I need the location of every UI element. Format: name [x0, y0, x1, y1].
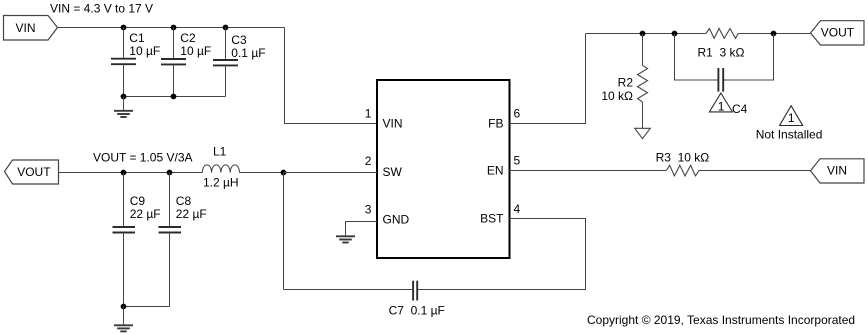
ground output caps — [114, 307, 133, 332]
junction C3 top — [223, 25, 229, 31]
junction C2 top — [171, 25, 177, 31]
capacitor C3 0.1uF — [213, 28, 266, 97]
junction C9 top — [121, 170, 127, 176]
wire feedback top rail left — [586, 33, 706, 35]
svg-text:Copyright © 2019, Texas Instru: Copyright © 2019, Texas Instruments Inco… — [587, 313, 855, 327]
svg-text:VIN: VIN — [827, 164, 847, 178]
capacitor C1 10uF — [111, 28, 160, 97]
variant marker triangle 1 at C4 — [709, 93, 732, 113]
svg-text:1: 1 — [365, 107, 372, 121]
wire L1 to SW junction — [240, 172, 378, 174]
svg-text:R1 3 kΩ: R1 3 kΩ — [698, 46, 745, 60]
svg-text:EN: EN — [487, 164, 504, 178]
wire BST pin to C7 — [417, 219, 585, 290]
wire GND pin to ground — [346, 222, 378, 237]
wire C4 right to R1 right — [723, 34, 773, 81]
junction R2 top — [640, 31, 646, 37]
svg-text:5: 5 — [514, 153, 521, 167]
wire feedback top rail right — [738, 33, 810, 35]
svg-text:C4: C4 — [732, 102, 748, 116]
svg-text:R3 10 kΩ: R3 10 kΩ — [656, 151, 710, 165]
wire input cap ground rail — [124, 96, 226, 98]
inductor L1 1.2uH — [202, 145, 239, 190]
svg-text:2: 2 — [365, 154, 372, 168]
ground IC GND pin — [336, 236, 355, 242]
svg-text:VIN: VIN — [16, 21, 36, 35]
svg-text:22 µF: 22 µF — [130, 207, 161, 221]
junction C8 top — [167, 170, 173, 176]
junction R1 left — [672, 31, 678, 37]
wire VIN rail to pin 1 — [285, 28, 378, 124]
ground arrow R2 — [635, 128, 651, 138]
svg-text:3: 3 — [365, 203, 372, 217]
svg-text:C3: C3 — [231, 33, 247, 47]
svg-text:1: 1 — [788, 111, 795, 125]
capacitor C4 (not installed) — [718, 68, 747, 116]
port VIN input flag — [4, 16, 58, 41]
svg-text:10 µF: 10 µF — [129, 44, 160, 58]
variant legend triangle 1 Not Installed — [756, 106, 823, 142]
svg-text:1: 1 — [718, 100, 725, 114]
junction C1 bottom — [121, 94, 127, 100]
resistor R3 10k — [656, 151, 710, 176]
svg-text:VOUT: VOUT — [821, 26, 855, 40]
svg-text:6: 6 — [514, 107, 521, 121]
svg-text:C2: C2 — [180, 31, 196, 45]
wire FB pin to feedback rail — [510, 34, 586, 124]
junction SW node — [281, 170, 287, 176]
port VOUT flag (top right) — [811, 21, 865, 45]
ground input caps — [114, 97, 133, 118]
svg-text:VIN = 4.3 V to 17 V: VIN = 4.3 V to 17 V — [50, 2, 153, 16]
svg-text:VIN: VIN — [383, 117, 403, 131]
capacitor C8 22uF — [159, 173, 207, 307]
svg-text:22 µF: 22 µF — [176, 207, 207, 221]
resistor R1 3k — [698, 29, 745, 60]
wire output cap ground rail — [124, 306, 170, 308]
svg-text:1.2 µH: 1.2 µH — [203, 176, 239, 190]
wire R3 to VIN flag — [699, 170, 810, 172]
junction C1 top — [121, 25, 127, 31]
svg-text:10 kΩ: 10 kΩ — [601, 89, 633, 103]
svg-text:4: 4 — [514, 202, 521, 216]
svg-text:FB: FB — [488, 117, 503, 131]
svg-text:R2: R2 — [618, 76, 634, 90]
capacitor C2 10uF — [161, 28, 211, 97]
svg-text:L1: L1 — [213, 145, 227, 159]
wire EN pin to R3 — [510, 170, 667, 172]
junction C9 bottom — [121, 304, 127, 310]
svg-text:C9: C9 — [130, 194, 146, 208]
resistor R2 10k — [601, 34, 647, 129]
svg-text:Not Installed: Not Installed — [756, 128, 823, 142]
svg-text:SW: SW — [383, 165, 403, 179]
svg-text:VOUT: VOUT — [17, 165, 51, 179]
svg-text:C1: C1 — [129, 31, 145, 45]
svg-text:BST: BST — [480, 212, 504, 226]
svg-text:VOUT = 1.05 V/3A: VOUT = 1.05 V/3A — [93, 151, 193, 165]
svg-text:C8: C8 — [176, 194, 192, 208]
capacitor C9 22uF — [113, 173, 161, 307]
svg-text:0.1 µF: 0.1 µF — [231, 46, 265, 60]
wire VIN top rail — [58, 27, 285, 29]
port VIN flag (bottom right) — [811, 159, 865, 183]
junction R1 right — [771, 31, 777, 37]
wire C7 to SW riser — [284, 289, 414, 291]
svg-text:GND: GND — [383, 212, 410, 226]
wire VOUT rail to L1 — [59, 172, 203, 174]
capacitor C7 0.1uF — [389, 281, 445, 318]
port VOUT output flag (bottom left) — [5, 160, 59, 184]
junction C2 bottom — [171, 94, 177, 100]
svg-text:10 µF: 10 µF — [180, 44, 211, 58]
svg-text:C7 0.1 µF: C7 0.1 µF — [389, 304, 445, 318]
op-amp U1 converter IC box — [377, 80, 510, 258]
wire SW node to C7 rail — [283, 173, 285, 290]
wire R1 C4 parallel loop — [675, 34, 719, 81]
wire SW pin stub — [284, 172, 378, 174]
